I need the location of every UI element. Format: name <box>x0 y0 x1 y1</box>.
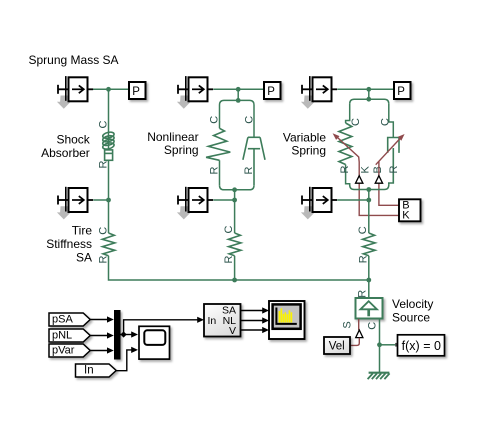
svg-text:R: R <box>243 166 255 174</box>
svg-text:R: R <box>208 166 220 174</box>
svg-text:Shock: Shock <box>56 132 90 146</box>
wire col2 bottom tap <box>234 190 236 233</box>
svg-text:B: B <box>372 166 384 173</box>
svg-text:pNL: pNL <box>52 330 72 342</box>
svg-text:pVar: pVar <box>52 345 75 357</box>
velocity source block <box>356 298 383 319</box>
mass block row1 col2 <box>177 76 213 109</box>
svg-text:R: R <box>339 165 351 173</box>
scope block small <box>139 326 170 359</box>
wire col1 vertical middle <box>108 160 110 233</box>
svg-text:Source: Source <box>392 311 430 325</box>
svg-text:Vel: Vel <box>329 341 345 353</box>
wire branch to scope input1 <box>124 334 132 336</box>
bracket col2 top <box>220 100 255 105</box>
svg-text:C: C <box>367 322 379 330</box>
svg-text:Stiffness: Stiffness <box>46 237 92 251</box>
wire variable damper upper jog <box>389 104 394 138</box>
bracket col3 bottom <box>350 185 389 190</box>
maroon variable damper arrow <box>376 138 401 176</box>
svg-text:R: R <box>357 290 369 298</box>
svg-text:Sprung Mass SA: Sprung Mass SA <box>29 53 119 67</box>
mass block row2 col2 <box>177 187 213 220</box>
mux block <box>114 310 121 360</box>
PS port triangle S <box>356 330 363 338</box>
tire spring SA zigzag <box>102 233 115 256</box>
tire spring Var zigzag <box>363 233 376 256</box>
maroon S port wire <box>358 319 360 330</box>
mass block row2 col3 <box>301 187 337 220</box>
junction dots green <box>106 87 382 347</box>
svg-text:In: In <box>208 315 217 327</box>
signal wire pNL to mux <box>90 335 107 337</box>
mass block Sprung Mass SA <box>57 76 93 109</box>
wire variable spring lower jog <box>346 165 350 186</box>
svg-text:K: K <box>402 210 410 222</box>
variable damper icon <box>388 138 399 185</box>
wire col1 row1 horizontal <box>93 88 129 90</box>
scope axes <box>276 308 296 324</box>
svg-text:C: C <box>208 116 220 124</box>
PS port triangle B <box>375 176 382 184</box>
P sensor block col3 <box>394 82 411 99</box>
scope yellow bars <box>279 308 293 322</box>
svg-text:C: C <box>98 120 110 128</box>
PS port triangle K <box>356 176 363 184</box>
svg-text:Velocity: Velocity <box>392 297 433 311</box>
tire spring NL zigzag <box>228 233 241 256</box>
svg-text:Variable: Variable <box>283 131 326 145</box>
wire hard stop upper <box>253 105 255 137</box>
solver port square <box>395 343 398 347</box>
hard stop icon <box>243 137 265 185</box>
mass block row1 col3 <box>301 76 337 109</box>
wire col3 bottom tap <box>368 190 370 234</box>
svg-text:Spring: Spring <box>164 143 199 157</box>
maroon wire Vel to S <box>350 338 359 346</box>
svg-text:C: C <box>244 116 256 124</box>
scope block with yellow bars <box>269 301 305 339</box>
wire col2 top tap <box>237 89 239 100</box>
maroon B line to BK block (under green) <box>379 183 399 205</box>
maroon K line to BK block (under green) <box>359 183 399 215</box>
wire In tag to scope input2 <box>116 350 131 371</box>
svg-text:K: K <box>360 165 372 173</box>
variable spring zigzag <box>339 123 352 165</box>
svg-text:SA: SA <box>76 251 92 265</box>
Vel block <box>324 337 350 354</box>
nonlinear spring zigzag <box>206 128 230 160</box>
solver block f(x)=0 <box>398 335 445 356</box>
svg-text:C: C <box>98 227 110 235</box>
svg-text:Tire: Tire <box>72 224 93 238</box>
From tag pVar <box>49 344 90 357</box>
svg-text:C: C <box>357 226 369 234</box>
wire col2 vertical lower <box>234 256 236 280</box>
BK block <box>399 199 421 221</box>
wire to solver block <box>380 344 396 346</box>
scope screen frame <box>273 304 301 328</box>
bracket col3 top <box>350 99 389 104</box>
svg-text:f(x) = 0: f(x) = 0 <box>402 339 441 353</box>
wire col3 row2 stub <box>337 199 369 201</box>
wire col1 vertical lower and bus to right <box>109 256 369 280</box>
svg-text:C: C <box>379 118 391 126</box>
wire col3 vertical lower to velocity source <box>368 256 370 298</box>
svg-text:In: In <box>84 365 94 377</box>
svg-text:V: V <box>229 325 236 337</box>
svg-text:C: C <box>350 118 362 126</box>
svg-text:pSA: pSA <box>52 314 73 326</box>
P sensor block col2 <box>264 82 281 99</box>
subsystem output wires <box>241 310 263 312</box>
svg-text:R: R <box>357 255 369 263</box>
shock absorber damper icon <box>102 131 115 160</box>
scope screen icon <box>144 330 165 345</box>
svg-text:R: R <box>223 255 235 263</box>
bracket col2 bottom <box>220 185 255 190</box>
wire nonlinear spring upper <box>219 105 221 128</box>
wire nonlinear spring lower <box>219 160 221 185</box>
wire variable spring upper jog <box>346 104 350 123</box>
svg-text:R: R <box>388 165 400 173</box>
velocity source arrow icon <box>360 301 377 309</box>
wire velocity source C down <box>379 319 381 372</box>
svg-text:Nonlinear: Nonlinear <box>147 130 198 144</box>
signal wire pSA to mux <box>90 319 107 321</box>
maroon variable spring arrow <box>337 137 359 176</box>
svg-text:C: C <box>223 225 235 233</box>
From tag pNL <box>49 329 90 342</box>
svg-text:Absorber: Absorber <box>41 146 90 160</box>
svg-text:Spring: Spring <box>291 144 326 158</box>
mux output wire and branch <box>121 320 198 335</box>
From tag pSA <box>49 313 90 326</box>
wire col1 vertical upper <box>108 89 110 150</box>
wire col1 row2 stub <box>93 199 108 201</box>
subsystem block In SA NL V <box>204 304 241 337</box>
ground reference <box>368 373 390 379</box>
signal wire pVar to mux <box>90 350 107 352</box>
branch junction dot <box>121 331 127 337</box>
P sensor block col1 <box>129 82 146 99</box>
From tag In <box>76 364 117 377</box>
wire col3 row1 horizontal <box>337 88 394 90</box>
wire col3 top tap <box>368 89 370 99</box>
mass block row2 col1 <box>57 187 93 220</box>
wire col2 row2 stub <box>213 199 234 201</box>
wire col2 row1 horizontal <box>213 88 264 90</box>
svg-text:S: S <box>342 321 354 328</box>
